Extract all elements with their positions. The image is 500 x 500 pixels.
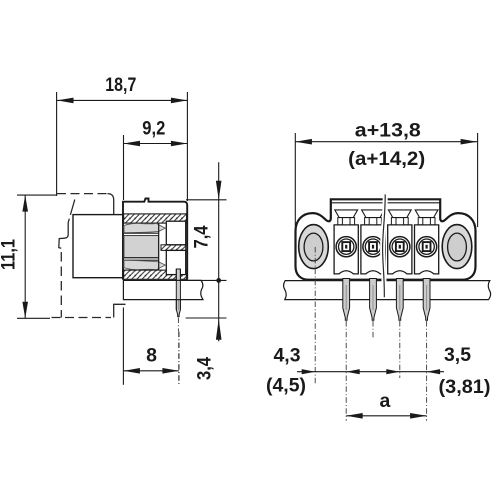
top hatch band (124, 214, 187, 223)
svg-text:4,3: 4,3 (274, 345, 301, 367)
dimension 11,1 (17, 195, 56, 318)
svg-text:3,5: 3,5 (444, 344, 471, 366)
pin over strip (177, 281, 180, 299)
dimension 3,4 (186, 317, 227, 319)
dimension a+13,8 (295, 133, 477, 227)
svg-text:9,2: 9,2 (142, 118, 165, 140)
cavity vertical line (158, 223, 160, 270)
pcb strip (side view) (123, 280, 203, 299)
mid hatch strip (161, 245, 186, 251)
svg-text:(4,5): (4,5) (266, 375, 306, 397)
bottom dimension line (297, 371, 444, 373)
pin centerline (side) (177, 318, 179, 332)
pin 4 (423, 279, 430, 321)
main gray contact block (124, 236, 159, 258)
centerline pin4 (426, 321, 428, 421)
dimension 7,4 (218, 162, 220, 341)
svg-text:a: a (379, 390, 390, 412)
terminal 4 (415, 210, 439, 274)
right flange inner ellipse (448, 233, 467, 261)
centerline pin3 (399, 321, 401, 378)
centerline pin1 (345, 321, 347, 421)
svg-text:7,4: 7,4 (191, 225, 213, 248)
solder pin (side view) (176, 269, 180, 317)
dimension 9,2 (124, 135, 188, 200)
left flange outer ellipse (299, 225, 329, 269)
terminal 3 (388, 210, 412, 274)
upper chamber square (166, 221, 185, 245)
left flange inner ellipse (304, 233, 323, 261)
pin 1 (343, 279, 350, 321)
break line (383, 194, 386, 297)
pcb strip (front view) (284, 281, 491, 300)
svg-text:a+13,8: a+13,8 (355, 120, 421, 142)
dimension 8 (123, 308, 178, 385)
dimension a (346, 415, 426, 417)
lower chamber square (166, 250, 185, 274)
contact double lines upper (124, 232, 159, 234)
terminal 2 (361, 210, 385, 274)
upper gray wavy region (124, 223, 165, 232)
pin 2 (370, 279, 377, 321)
bottom hatch band (124, 270, 187, 279)
lower gray wavy region (124, 260, 165, 269)
pin 3 (396, 279, 403, 321)
front body outline (296, 199, 476, 279)
svg-text:8: 8 (146, 345, 157, 367)
svg-text:11,1: 11,1 (0, 239, 20, 270)
centerline pin2 (372, 321, 374, 338)
plug back housing rectangle (73, 215, 123, 278)
svg-text:18,7: 18,7 (105, 74, 136, 96)
body outline (side view) (123, 199, 187, 280)
mating plug dashed outline (52, 194, 126, 318)
contact double lines lower (124, 257, 159, 259)
svg-text:3,4: 3,4 (194, 357, 216, 380)
terminal 1 (334, 210, 358, 274)
dimension 18,7 (57, 92, 188, 201)
svg-text:(a+14,2): (a+14,2) (348, 148, 425, 170)
svg-text:(3,81): (3,81) (439, 376, 491, 398)
right flange outer ellipse (442, 225, 472, 269)
centerline flange (314, 247, 316, 384)
